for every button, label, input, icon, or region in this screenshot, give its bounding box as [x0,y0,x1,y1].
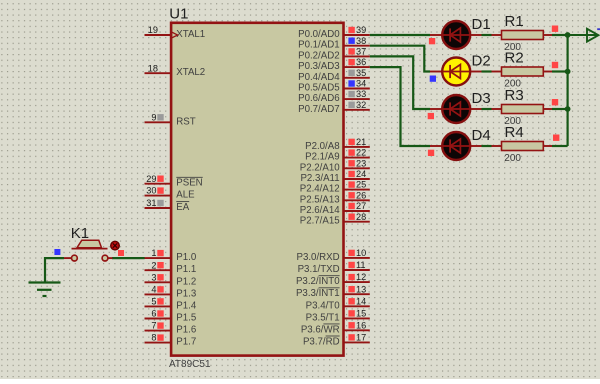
svg-text:34: 34 [356,79,366,89]
svg-text:2: 2 [151,260,156,270]
svg-text:PSEN: PSEN [176,178,202,189]
svg-text:1: 1 [151,248,156,258]
svg-text:P0.6/AD6: P0.6/AD6 [298,93,339,104]
svg-text:P1.4: P1.4 [176,300,197,311]
svg-text:R3: R3 [505,87,524,104]
svg-text:23: 23 [356,158,366,168]
svg-text:17: 17 [356,333,366,343]
svg-text:9: 9 [151,112,156,122]
svg-text:15: 15 [356,309,366,319]
svg-text:P2.7/A15: P2.7/A15 [300,216,340,227]
svg-text:11: 11 [356,260,366,270]
svg-text:7: 7 [151,321,156,331]
svg-text:P1.6: P1.6 [176,325,196,336]
svg-text:K1: K1 [71,225,89,242]
svg-text:R1: R1 [505,13,524,30]
svg-text:P2.3/A11: P2.3/A11 [300,173,339,184]
svg-text:P0.2/AD2: P0.2/AD2 [298,50,339,61]
svg-text:14: 14 [356,296,366,306]
svg-text:24: 24 [356,169,366,179]
svg-text:19: 19 [148,25,158,35]
svg-text:36: 36 [356,57,366,67]
svg-text:XTAL1: XTAL1 [176,29,205,40]
svg-text:25: 25 [356,180,366,190]
svg-text:ALE: ALE [176,190,195,201]
svg-text:D2: D2 [472,53,491,70]
svg-text:38: 38 [356,36,366,46]
svg-text:P3.7/RD: P3.7/RD [303,336,340,347]
svg-text:27: 27 [356,201,366,211]
svg-text:P3.1/TXD: P3.1/TXD [298,264,340,275]
svg-text:32: 32 [356,100,366,110]
svg-text:P3.0/RXD: P3.0/RXD [297,252,340,263]
svg-text:8: 8 [151,333,156,343]
svg-text:30: 30 [146,186,156,196]
svg-text:EA: EA [176,202,189,213]
svg-text:XTAL2: XTAL2 [176,67,205,78]
svg-text:P3.3/INT1: P3.3/INT1 [296,288,340,299]
svg-text:P2.6/A14: P2.6/A14 [300,205,340,216]
svg-text:P1.5: P1.5 [176,313,196,324]
svg-text:P1.2: P1.2 [176,276,196,287]
svg-text:200: 200 [504,153,521,164]
svg-text:P0.3/AD3: P0.3/AD3 [298,61,339,72]
svg-text:22: 22 [356,148,366,158]
svg-text:21: 21 [356,137,366,147]
svg-text:16: 16 [356,320,366,330]
svg-text:P0.5/AD5: P0.5/AD5 [298,83,339,94]
svg-text:P2.1/A9: P2.1/A9 [305,152,339,163]
svg-text:12: 12 [356,272,366,282]
svg-text:39: 39 [356,25,366,35]
svg-text:10: 10 [356,248,366,258]
svg-text:P3.5/T1: P3.5/T1 [306,312,340,323]
svg-text:18: 18 [148,63,158,73]
svg-text:26: 26 [356,190,366,200]
svg-text:31: 31 [146,198,156,208]
svg-text:6: 6 [151,309,156,319]
svg-text:R4: R4 [505,124,524,141]
svg-text:28: 28 [356,212,366,222]
svg-text:D4: D4 [472,127,491,144]
svg-text:RST: RST [176,116,195,127]
svg-text:29: 29 [146,174,156,184]
svg-text:D1: D1 [472,16,491,33]
svg-text:P0.1/AD1: P0.1/AD1 [298,40,339,51]
svg-text:5: 5 [151,297,156,307]
svg-text:37: 37 [356,47,366,57]
svg-text:U1: U1 [169,6,188,23]
svg-text:D3: D3 [472,90,491,107]
svg-text:35: 35 [356,68,366,78]
svg-text:P2.5/A13: P2.5/A13 [300,194,340,205]
svg-text:P3.2/INT0: P3.2/INT0 [296,276,340,287]
svg-text:P0.0/AD0: P0.0/AD0 [298,29,340,40]
svg-text:4: 4 [151,285,156,295]
svg-text:P1.0: P1.0 [176,252,197,263]
svg-text:P2.2/A10: P2.2/A10 [300,162,340,173]
svg-text:P2.0/A8: P2.0/A8 [305,141,339,152]
svg-text:P1.3: P1.3 [176,288,196,299]
svg-text:P2.4/A12: P2.4/A12 [300,184,340,195]
svg-text:R2: R2 [505,50,524,67]
svg-text:13: 13 [356,284,366,294]
svg-text:3: 3 [151,272,156,282]
svg-text:P0.7/AD7: P0.7/AD7 [298,104,339,115]
svg-text:P0.4/AD4: P0.4/AD4 [298,72,340,83]
svg-text:P1.1: P1.1 [176,264,196,275]
svg-text:AT89C51: AT89C51 [169,359,211,370]
svg-text:P3.4/T0: P3.4/T0 [306,300,341,311]
svg-text:P1.7: P1.7 [176,337,196,348]
svg-text:33: 33 [356,89,366,99]
svg-text:P3.6/WR: P3.6/WR [301,324,340,335]
